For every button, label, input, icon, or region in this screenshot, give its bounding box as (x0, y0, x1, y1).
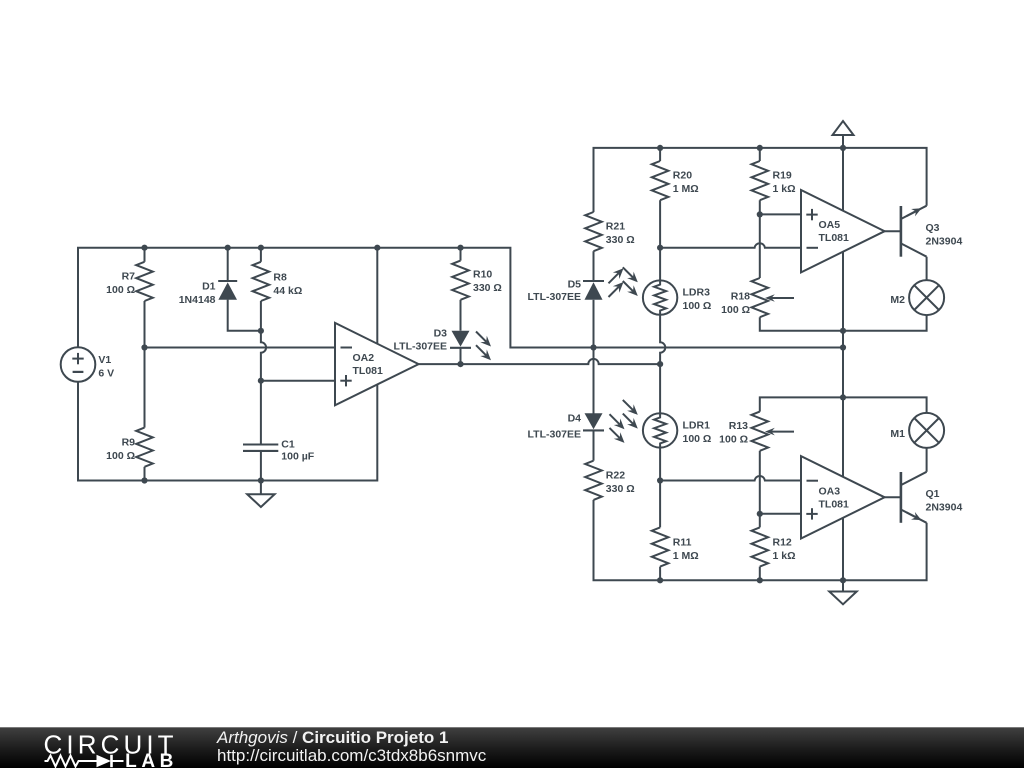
op-amp OA5 TL081 (801, 190, 885, 272)
svg-text:2N3904: 2N3904 (926, 502, 963, 514)
svg-text:V1: V1 (98, 354, 111, 366)
wire R12 bottom pin (759, 567, 761, 581)
svg-text:Q3: Q3 (926, 222, 940, 234)
wire R10 to D3 (460, 300, 462, 331)
wire R8 bottom pin (260, 301, 262, 331)
wire Q3 emitter to M2 (926, 257, 928, 280)
wire R8 top pin (260, 248, 262, 262)
svg-text:LTL-307EE: LTL-307EE (528, 429, 581, 441)
wire OA5 non-inverting input (760, 213, 801, 215)
junction (657, 145, 663, 151)
svg-text:330 Ω: 330 Ω (606, 483, 635, 495)
CircuitLab logo (43, 730, 183, 768)
svg-text:1N4148: 1N4148 (179, 294, 216, 306)
svg-text:330 Ω: 330 Ω (473, 282, 502, 294)
junction (657, 361, 663, 367)
potentiometer R18 100 (752, 278, 769, 317)
resistor R8 44k (253, 262, 270, 301)
resistor R22 330 (585, 461, 602, 500)
LED D5 LTL-307EE (583, 280, 604, 282)
wire D1 anode to node (228, 300, 261, 331)
R18 wiper arrow (771, 297, 794, 299)
wire lower block top rail to M1 (760, 397, 927, 413)
resistor R10 330 (452, 261, 469, 300)
D3 light arrow 2 (476, 345, 486, 355)
svg-text:R19: R19 (773, 170, 792, 182)
svg-text:330 Ω: 330 Ω (606, 234, 635, 246)
resistor R9 100 (136, 428, 153, 467)
photoresistor LDR1 100 (643, 413, 677, 447)
lamp M1 (909, 413, 944, 448)
wire top-right rail (594, 148, 927, 212)
svg-text:100 Ω: 100 Ω (721, 304, 750, 316)
resistor R7 100 (136, 262, 153, 301)
R13 wiper arrow (771, 431, 794, 433)
junction (141, 477, 147, 483)
wire node to OA3 inverting input with hop (660, 476, 801, 480)
wire D1 top pin (227, 248, 229, 281)
svg-text:OA3: OA3 (819, 485, 841, 497)
op-amp OA2 TL081 (335, 323, 419, 405)
svg-text:R22: R22 (606, 470, 625, 482)
LED D4 LTL-307EE (583, 429, 604, 431)
lamp M2 (909, 280, 944, 315)
svg-text:100 Ω: 100 Ω (683, 300, 712, 312)
svg-text:R20: R20 (673, 170, 692, 182)
svg-text:R18: R18 (731, 291, 750, 303)
wire OA2 output with hop (419, 359, 660, 364)
wire OA3 output to Q1 base (885, 496, 901, 498)
wire R19 top pin (759, 148, 761, 161)
svg-text:100 Ω: 100 Ω (683, 433, 712, 445)
junction (258, 378, 264, 384)
voltage source V1 6V (61, 347, 96, 382)
svg-text:R12: R12 (773, 537, 792, 549)
resistor R11 1M (652, 527, 669, 566)
wire R18 bottom to M2 bottom (760, 315, 927, 331)
svg-text:100 Ω: 100 Ω (106, 284, 135, 296)
svg-text:100 µF: 100 µF (281, 451, 314, 463)
svg-text:44 kΩ: 44 kΩ (273, 285, 302, 297)
wire R20 bottom pin (659, 200, 661, 248)
wire R11 bottom pin (659, 567, 661, 581)
D4 light arrow 1 (610, 414, 620, 424)
LDR3 light arrow 2 (623, 281, 633, 291)
wire LDR3 top pin (659, 248, 661, 281)
svg-text:R9: R9 (122, 437, 136, 449)
D5 light arrow 1 (609, 287, 619, 297)
svg-text:M2: M2 (890, 294, 905, 306)
junction (757, 511, 763, 517)
resistor R12 1k (752, 527, 769, 566)
svg-text:1 MΩ: 1 MΩ (673, 550, 699, 562)
D4 light arrow 2 (610, 428, 620, 438)
junction (757, 211, 763, 217)
wire VCC stem (842, 135, 844, 148)
svg-text:D3: D3 (434, 328, 448, 340)
svg-text:R10: R10 (473, 269, 492, 281)
svg-text:1 kΩ: 1 kΩ (773, 183, 796, 195)
wire R7 top pin (144, 248, 146, 262)
svg-text:6 V: 6 V (98, 367, 114, 379)
ground left (247, 494, 274, 507)
junction (840, 577, 846, 583)
junction (457, 245, 463, 251)
diode D1 1N4148 (218, 280, 237, 282)
junction (757, 577, 763, 583)
svg-text:LTL-307EE: LTL-307EE (528, 291, 581, 303)
potentiometer R13 100 (752, 412, 769, 451)
transistor Q1 2N3904 (900, 472, 903, 523)
junction (590, 344, 596, 350)
LDR1 light arrow 1 (623, 400, 633, 410)
wire V1 top / top-left rail to mid node (78, 248, 843, 348)
svg-text:R13: R13 (729, 420, 748, 432)
junction (258, 245, 264, 251)
wire to LDR1 top (659, 364, 661, 413)
svg-text:LDR1: LDR1 (683, 420, 711, 432)
capacitor C1 100uF (243, 443, 278, 445)
svg-text:TL081: TL081 (353, 365, 384, 377)
wire LDR1 bottom pin (659, 448, 661, 481)
wire OA2 non-inverting input (261, 380, 335, 382)
svg-text:R7: R7 (122, 271, 136, 283)
svg-text:R11: R11 (673, 537, 692, 549)
svg-text:2N3904: 2N3904 (926, 236, 963, 248)
resistor R21 330 (585, 212, 602, 251)
svg-text:LTL-307EE: LTL-307EE (394, 341, 447, 353)
wire D5 column to D4 (593, 348, 595, 415)
wire VCC-ground rail (842, 148, 844, 580)
svg-text:R8: R8 (273, 272, 287, 284)
svg-text:D5: D5 (568, 279, 582, 291)
svg-text:1 kΩ: 1 kΩ (773, 550, 796, 562)
svg-text:LAB: LAB (125, 751, 178, 768)
junction (225, 245, 231, 251)
wire OA2 inverting input (145, 347, 336, 349)
junction (141, 344, 147, 350)
wire D4 to R22 (593, 430, 595, 460)
svg-text:OA5: OA5 (819, 219, 841, 231)
wire Q1 collector to M1 (926, 448, 928, 472)
junction (657, 245, 663, 251)
D3 light arrow 1 (476, 332, 486, 342)
LDR1 light arrow 2 (623, 414, 633, 424)
wire D5 anode down (593, 300, 595, 348)
wire ground stem right (842, 580, 844, 591)
svg-text:D1: D1 (202, 281, 216, 293)
svg-text:TL081: TL081 (819, 232, 850, 244)
junction (657, 477, 663, 483)
svg-text:100 Ω: 100 Ω (719, 434, 748, 446)
svg-text:OA2: OA2 (353, 352, 375, 364)
wire node to OA5 inverting input with hop (660, 243, 801, 247)
wire R21 to D5 (593, 251, 595, 281)
svg-text:Q1: Q1 (926, 488, 940, 500)
svg-text:D4: D4 (568, 413, 582, 425)
wire R19 bottom pin (759, 200, 761, 214)
svg-text:1 MΩ: 1 MΩ (673, 183, 699, 195)
junction (840, 344, 846, 350)
wire R9 bottom pin (144, 467, 146, 481)
junction (840, 328, 846, 334)
transistor Q3 2N3904 (900, 206, 903, 257)
logo resistor squiggle and diode (45, 756, 124, 767)
resistor R19 1k (752, 161, 769, 200)
D5 light arrow 2 (609, 273, 619, 283)
wire LDR3 bottom with hop (660, 315, 665, 364)
svg-text:C1: C1 (281, 439, 295, 451)
junction (258, 477, 264, 483)
LED D3 LTL-307EE (450, 347, 471, 349)
svg-text:M1: M1 (890, 428, 905, 440)
wire D3 cathode to output node (460, 348, 462, 364)
LDR3 light arrow 1 (623, 267, 633, 277)
op-amp OA3 TL081 (801, 456, 885, 538)
wire OA5 output to Q3 base (885, 230, 901, 232)
wire R19 node to R18 (759, 214, 761, 278)
junction (840, 145, 846, 151)
junction (657, 577, 663, 583)
VCC supply symbol (833, 121, 854, 135)
junction (374, 245, 380, 251)
wire bottom rail to Q1 emitter (594, 500, 927, 580)
wire R13 bottom to node (759, 451, 761, 514)
junction (258, 328, 264, 334)
junction (457, 361, 463, 367)
junction (840, 394, 846, 400)
wire R7-R9 link (144, 301, 146, 428)
resistor R20 1M (652, 161, 669, 200)
svg-text:TL081: TL081 (819, 498, 850, 510)
wire to R11 top (659, 481, 661, 528)
wire V1 bottom / bottom-left rail / OA2 feedback (78, 248, 377, 481)
wire node to R12 (759, 514, 761, 528)
wire C1 bottom to ground (260, 451, 262, 494)
svg-text:R21: R21 (606, 221, 625, 233)
wire R20 top pin (659, 148, 661, 161)
wire R10 top pin (460, 248, 462, 261)
junction (141, 245, 147, 251)
wire OA3 non-inverting input (760, 513, 801, 515)
svg-text:100 Ω: 100 Ω (106, 450, 135, 462)
wire R8 node to C1 with hop (261, 331, 266, 445)
ground right (829, 592, 856, 605)
svg-text:LDR3: LDR3 (683, 287, 711, 299)
photoresistor LDR3 100 (643, 280, 677, 314)
junction (757, 145, 763, 151)
